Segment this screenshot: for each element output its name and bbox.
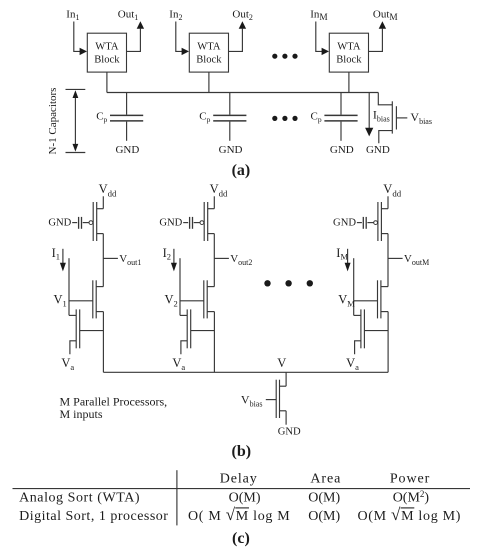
svg-text:WTA: WTA [197, 42, 221, 53]
capacitor on gate of PM to GND [357, 217, 366, 229]
node V label [277, 356, 286, 370]
svg-text:Block: Block [196, 54, 222, 65]
svg-text:GND: GND [330, 144, 354, 156]
svg-text:Va: Va [172, 356, 185, 372]
current arrow IM [345, 249, 351, 272]
svg-text:Block: Block [336, 54, 362, 65]
label Vbias (gate of Q0) [410, 110, 432, 126]
node Va label column 1 [61, 356, 74, 372]
current arrow I2 [171, 249, 177, 272]
svg-text:GND: GND [115, 144, 139, 156]
node Va label column 2 [172, 356, 185, 372]
wire In2 input with arrowhead into WTA block [176, 22, 189, 56]
ground GND at gate of P2 [159, 218, 182, 229]
node Va label column M [346, 356, 359, 372]
svg-text:Power: Power [390, 472, 430, 487]
value label Cp of capacitor CM [311, 110, 322, 124]
node In2 label [169, 9, 182, 22]
wire junction: N2a source down to common rail [213, 312, 215, 373]
wire junction: N1a source down to common rail [102, 312, 104, 373]
annotation: N-1 Capacitors bracket with double arrow [47, 88, 85, 155]
label I1 [52, 246, 60, 262]
svg-text:In1: In1 [66, 9, 79, 22]
power Vdd label column 2 [210, 182, 228, 199]
svg-text:O(M2): O(M2) [393, 489, 430, 506]
label V1 [54, 292, 67, 308]
ground GND at gate of P1 [48, 218, 71, 229]
wire input node VM (current input) [353, 258, 355, 315]
svg-text:Vdd: Vdd [99, 182, 117, 199]
table header Area [310, 472, 341, 487]
wire P1 source down to N1a drain (output branch) [102, 234, 104, 287]
wire junction: NMa source down to common rail [387, 312, 389, 373]
svg-text:Area: Area [310, 472, 341, 487]
ellipsis dots between WTA blocks [272, 54, 297, 59]
label VM [338, 292, 355, 308]
capacitor C1 (Cp) [110, 93, 143, 141]
svg-text:Delay: Delay [220, 472, 258, 487]
svg-text:(b): (b) [232, 443, 252, 460]
table cell O(M^2) power analog [393, 489, 430, 506]
label Ibias [373, 108, 390, 124]
capacitor on gate of P1 to GND [72, 217, 81, 229]
node InM label [310, 9, 327, 23]
svg-text:GND: GND [48, 218, 71, 229]
transistor P2 PMOS load column 2 [194, 202, 215, 241]
label Vbias (gate of Qb) [241, 393, 263, 409]
table cell O(M) area analog [308, 491, 340, 506]
transistor P1 PMOS load column 1 [83, 202, 104, 241]
ground GND under transistor Q0 source [366, 144, 390, 156]
svg-text:In2: In2 [169, 9, 182, 22]
wire node V down to bias transistor Qb drain [285, 372, 287, 386]
transistor NMb NMOS (mirrored) column M [354, 309, 388, 354]
svg-text:I2: I2 [163, 246, 171, 262]
ground GND under capacitor C1 [115, 144, 139, 156]
svg-text:Analog Sort (WTA): Analog Sort (WTA) [19, 491, 140, 506]
label IM [336, 246, 348, 262]
wire from WTA block U1 bottom to common bus [106, 72, 108, 92]
wire In1 input with arrowhead into WTA block [74, 22, 87, 56]
node In1 label [66, 9, 79, 22]
caption (b) [232, 443, 252, 460]
label I2 [163, 246, 171, 262]
wire PM source down to NMa drain (output branch) [387, 234, 389, 287]
transistor N1b NMOS (mirrored) column 1 [69, 309, 103, 354]
svg-text:Vbias: Vbias [410, 110, 432, 126]
svg-text:Cp: Cp [311, 110, 322, 124]
wire from WTA block UM bottom to common bus [348, 72, 350, 92]
svg-text:InM: InM [310, 9, 327, 23]
transistor Q0 bias NMOS of section (a) [378, 93, 407, 144]
svg-text:Out1: Out1 [118, 9, 139, 22]
ellipsis dots between capacitors [272, 116, 297, 121]
table header rule [13, 488, 471, 490]
node Out2 label [232, 9, 253, 22]
power Vdd label column 1 [99, 182, 117, 199]
svg-text:GND: GND [366, 144, 390, 156]
capacitor CM (Cp) [324, 93, 357, 141]
wire common bus net [107, 92, 378, 94]
WTA block U1 [87, 33, 126, 72]
wire Out1 output with upward arrowhead [127, 21, 145, 51]
svg-text:Va: Va [61, 356, 74, 372]
svg-text:Vout2: Vout2 [230, 253, 252, 267]
svg-text:V1: V1 [54, 292, 67, 308]
table cell O( M sqrt(M) log M delay digital [188, 505, 290, 524]
svg-text:(c): (c) [232, 530, 250, 547]
table header Delay [220, 472, 258, 487]
wire InM input with arrowhead into WTA block [316, 22, 329, 56]
svg-text:IM: IM [336, 246, 348, 262]
svg-text:Va: Va [346, 356, 359, 372]
svg-text:O(M): O(M) [229, 491, 261, 506]
svg-text:VM: VM [338, 292, 355, 308]
table header Power [390, 472, 430, 487]
wire input node V2 (current input) [179, 258, 181, 315]
ground GND at gate of PM [333, 218, 356, 229]
wire from WTA block U2 bottom to common bus [208, 72, 210, 92]
svg-text:GND: GND [159, 218, 182, 229]
wire input node V1 (current input) [68, 258, 70, 315]
wire Vdd to transistor PM drain [387, 196, 389, 208]
svg-text:I1: I1 [52, 246, 60, 262]
svg-text:VoutM: VoutM [404, 253, 429, 267]
capacitor on gate of P2 to GND [183, 217, 192, 229]
value label Cp of capacitor C1 [96, 110, 107, 124]
wire Vdd to transistor P1 drain [102, 196, 104, 208]
transistor N2a NMOS (gate V2) column 2 [180, 280, 214, 318]
svg-text:N-1 Capacitors: N-1 Capacitors [47, 88, 59, 155]
svg-text:V: V [277, 356, 286, 370]
node OutM label [373, 9, 398, 23]
ground GND under transistor Qb [278, 426, 301, 437]
svg-text:WTA: WTA [337, 42, 361, 53]
label V2 [165, 292, 178, 308]
WTA block UM [329, 33, 368, 72]
svg-text:Ibias: Ibias [373, 108, 390, 124]
table cell O(M) delay analog [229, 491, 261, 506]
transistor PM PMOS load column M [367, 202, 388, 241]
svg-text:GND: GND [219, 144, 243, 156]
svg-text:Cp: Cp [199, 110, 210, 124]
svg-text:Vdd: Vdd [383, 182, 401, 199]
svg-text:Cp: Cp [96, 110, 107, 124]
wire common source rail (node V) [103, 371, 388, 373]
svg-text:Block: Block [94, 54, 120, 65]
table row label Digital Sort, 1 processor [19, 509, 168, 524]
transistor N2b NMOS (mirrored) column 2 [180, 309, 214, 354]
svg-text:WTA: WTA [95, 42, 119, 53]
node Out1 label [118, 9, 139, 22]
caption (c) [232, 530, 250, 547]
ground GND under capacitor CM [330, 144, 354, 156]
svg-text:V2: V2 [165, 292, 178, 308]
transistor NMa NMOS (gate VM) column M [354, 280, 388, 318]
svg-text:Vdd: Vdd [210, 182, 228, 199]
table cell O(M sqrt(M) log M) power digital [358, 505, 462, 524]
ellipsis dots between column 2 and column M [264, 280, 313, 286]
value label Cp of capacitor C2 [199, 110, 210, 124]
wire P2 source down to N2a drain (output branch) [213, 234, 215, 287]
node VoutM stub and label [388, 253, 429, 267]
wire Vdd to transistor P2 drain [213, 196, 215, 208]
ground GND under capacitor C2 [219, 144, 243, 156]
transistor N1a NMOS (gate V1) column 1 [69, 280, 103, 318]
transistor Qb bias NMOS of section (b) [266, 380, 286, 425]
caption (a) [232, 162, 251, 179]
capacitor C2 (Cp) [213, 93, 246, 141]
wire OutM output with upward arrowhead [369, 21, 387, 51]
node Vout2 stub and label [214, 253, 252, 267]
svg-text:Vout1: Vout1 [119, 253, 141, 267]
svg-text:(a): (a) [232, 162, 251, 179]
table cell O(M) area digital [308, 509, 340, 524]
svg-text:GND: GND [278, 426, 301, 437]
svg-text:Digital Sort, 1 processor: Digital Sort, 1 processor [19, 509, 168, 524]
svg-text:Vbias: Vbias [241, 393, 263, 409]
power Vdd label column M [383, 182, 401, 199]
svg-text:OutM: OutM [373, 9, 398, 23]
node Vout1 stub and label [103, 253, 141, 267]
svg-text:Out2: Out2 [232, 9, 253, 22]
table row label Analog Sort (WTA) [19, 491, 140, 506]
current arrow Ibias [365, 93, 373, 137]
WTA block U2 [189, 33, 228, 72]
svg-text:GND: GND [333, 218, 356, 229]
annotation: M Parallel Processors, M inputs [60, 394, 168, 421]
svg-text:O(M): O(M) [308, 491, 340, 506]
svg-text:O(M): O(M) [308, 509, 340, 524]
current arrow I1 [60, 249, 66, 272]
table column divider line [176, 470, 178, 525]
svg-text:M inputs: M inputs [60, 407, 103, 421]
wire Out2 output with upward arrowhead [229, 21, 247, 51]
